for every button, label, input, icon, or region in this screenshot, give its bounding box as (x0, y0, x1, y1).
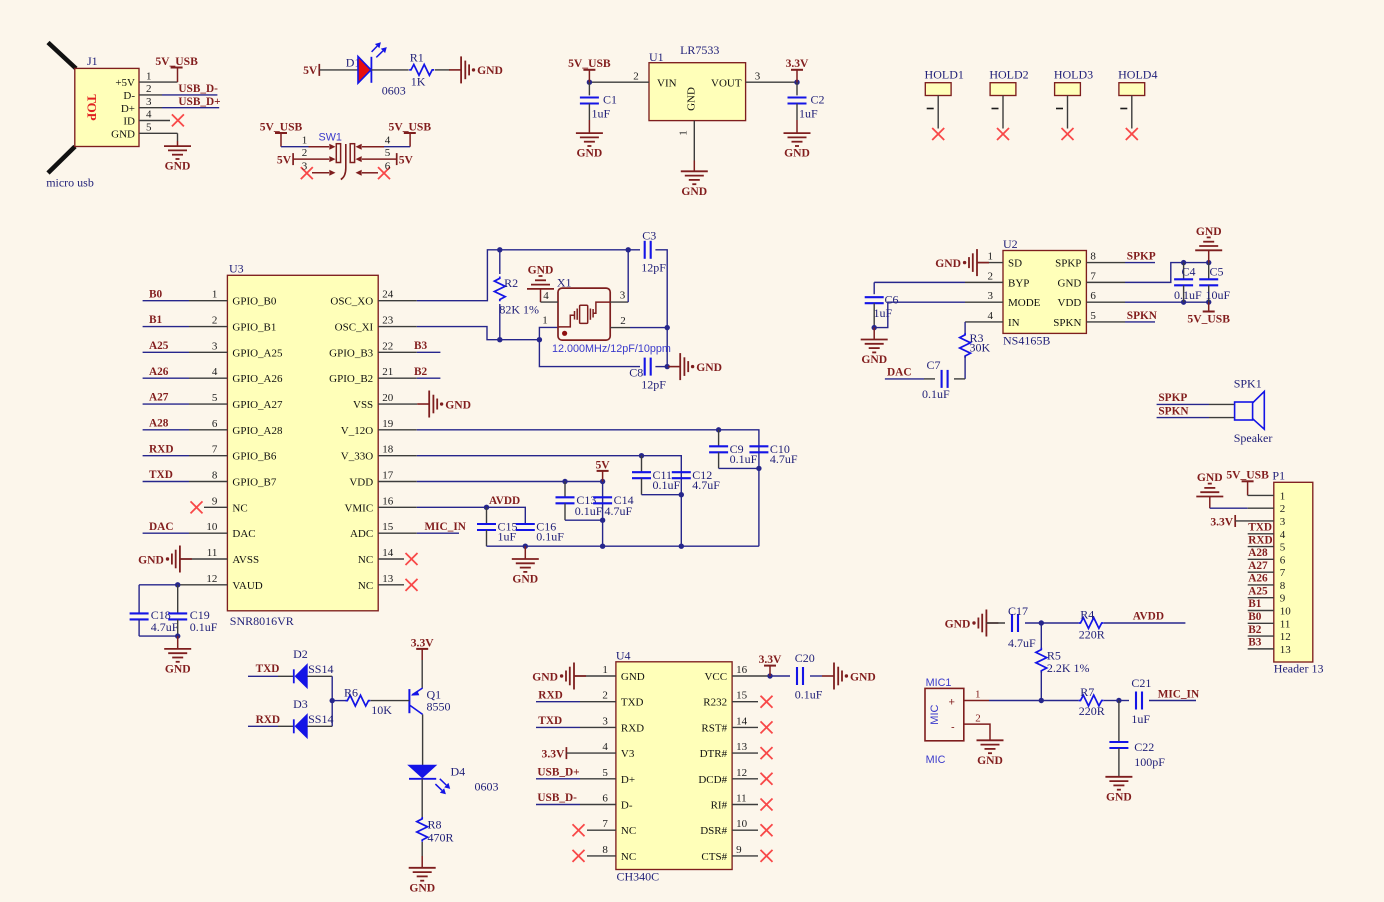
U3 pin 1 wire (143, 300, 228, 302)
svg-text:4.7uF: 4.7uF (605, 504, 633, 518)
svg-text:GND: GND (850, 670, 876, 683)
svg-text:220R: 220R (1079, 628, 1105, 642)
resistor R3 (960, 331, 991, 379)
no-connect X on SW1 pin 6 (378, 167, 390, 179)
svg-text:13: 13 (736, 741, 748, 753)
U4 pin 2 wire (536, 701, 616, 703)
ground GND right of R1 (449, 56, 503, 83)
P1 pin numbers (1280, 490, 1292, 655)
J1 pin 3 wire (139, 107, 219, 109)
SW1 pin 6 wire (356, 170, 379, 176)
svg-text:B1: B1 (1248, 598, 1262, 610)
net label RXD (149, 443, 173, 455)
svg-text:23: 23 (382, 315, 394, 327)
no-connect X on HOLD2 (997, 128, 1009, 140)
svg-text:GND: GND (409, 881, 435, 894)
svg-text:HOLD1: HOLD1 (925, 68, 964, 82)
svg-text:A26: A26 (149, 366, 169, 378)
capacitor C6 (865, 293, 899, 328)
svg-text:SPKP: SPKP (1158, 392, 1187, 404)
svg-text:R6: R6 (344, 686, 358, 700)
svg-text:5V_USB: 5V_USB (155, 55, 198, 68)
speaker SPK1 (1234, 377, 1262, 391)
capacitor C12 (672, 468, 721, 492)
net label TXD (149, 469, 173, 481)
svg-text:9: 9 (736, 844, 742, 856)
X1 pin 2 wire (610, 327, 667, 329)
svg-text:GPIO_B7: GPIO_B7 (232, 477, 277, 489)
svg-text:GND: GND (945, 617, 971, 630)
no-connect X on U4 pin 12 (761, 773, 773, 785)
svg-text:10: 10 (1280, 606, 1292, 618)
U3 pin 8 wire (143, 481, 228, 483)
J1 pin 1 wire (139, 68, 178, 83)
svg-text:3: 3 (602, 715, 608, 727)
svg-text:AVDD: AVDD (489, 495, 520, 507)
svg-text:1: 1 (678, 130, 690, 136)
svg-text:1: 1 (602, 664, 608, 676)
svg-text:DAC: DAC (232, 528, 255, 540)
SW1 pin 3 wire (312, 170, 336, 176)
svg-text:11: 11 (736, 793, 747, 805)
svg-text:VOUT: VOUT (711, 77, 742, 89)
svg-text:TXD: TXD (1248, 521, 1272, 533)
svg-text:NC: NC (621, 851, 636, 863)
capacitor C21 (1131, 676, 1151, 726)
svg-text:R2: R2 (504, 276, 518, 290)
svg-text:1: 1 (988, 251, 994, 263)
svg-text:GPIO_B2: GPIO_B2 (329, 373, 373, 385)
ground GND at P1 (1196, 471, 1223, 497)
U3 body (227, 275, 378, 611)
resistor R4 (1079, 608, 1105, 642)
svg-text:GND: GND (111, 128, 135, 140)
capacitor C15 (477, 507, 518, 546)
capacitor C10 (749, 442, 798, 466)
svg-text:ID: ID (123, 116, 135, 128)
svg-text:0603: 0603 (475, 780, 499, 794)
svg-text:8: 8 (1280, 580, 1286, 592)
power port 3.3V at U4 VCC (759, 653, 782, 676)
svg-text:3: 3 (212, 340, 218, 352)
J1 body (75, 68, 139, 146)
svg-text:12: 12 (736, 767, 747, 779)
svg-text:GND: GND (1196, 225, 1222, 238)
svg-text:5V: 5V (277, 153, 292, 166)
svg-text:RXD: RXD (149, 443, 173, 455)
svg-text:GPIO_A25: GPIO_A25 (232, 347, 283, 359)
U4 pin 13 wire (732, 752, 758, 754)
svg-text:12pF: 12pF (641, 378, 666, 392)
svg-text:4.7uF: 4.7uF (1008, 636, 1036, 650)
P1 pin 4 wire (1248, 533, 1274, 535)
wire to R4 (1041, 622, 1078, 624)
net label B1 (149, 314, 163, 326)
U1 pin 3 wire (746, 81, 797, 83)
svg-text:R7: R7 (1080, 685, 1094, 699)
P1 pin 3 wire (1235, 520, 1274, 522)
wire D3 to junction (307, 725, 332, 727)
svg-text:GND: GND (477, 64, 503, 77)
svg-text:3: 3 (755, 70, 761, 82)
svg-text:GND: GND (165, 662, 191, 675)
U3 pin 24 wire OSC_XO (378, 250, 640, 301)
U1 pin number 1 (678, 130, 690, 136)
svg-text:5V_USB: 5V_USB (1187, 313, 1230, 326)
svg-text:2: 2 (988, 270, 994, 282)
svg-text:1uF: 1uF (592, 107, 611, 121)
svg-text:5V: 5V (303, 64, 318, 77)
SW1 pin number 5 (385, 147, 391, 159)
X1 pin number 1 (542, 315, 548, 327)
U4 pin 5 wire (536, 778, 616, 780)
svg-text:0.1uF: 0.1uF (575, 504, 603, 518)
U4 left pin numbers (602, 664, 608, 856)
svg-text:5: 5 (1090, 310, 1096, 322)
svg-text:GND: GND (1058, 277, 1082, 289)
label Header 13 (1274, 662, 1324, 676)
P1 pin 8 wire (1248, 584, 1274, 586)
no-connect X on U4 pin 13 (761, 747, 773, 759)
wire SPKN to speaker (1157, 417, 1235, 419)
capacitor C8 (629, 358, 666, 392)
junction at C5 top (1206, 260, 1211, 265)
svg-text:13: 13 (382, 573, 394, 585)
junction at C6 bottom (872, 325, 877, 330)
svg-text:3.3V: 3.3V (786, 57, 809, 70)
svg-text:0.1uF: 0.1uF (653, 478, 681, 492)
HOLD1 body (925, 83, 951, 96)
capacitor C13 (556, 482, 603, 521)
svg-text:SW1: SW1 (319, 132, 342, 144)
ground GND under C22 (1105, 777, 1132, 804)
svg-text:DTR#: DTR# (700, 748, 728, 760)
svg-text:C21: C21 (1131, 676, 1151, 690)
svg-text:0.1uF: 0.1uF (1174, 288, 1202, 302)
svg-text:GPIO_A27: GPIO_A27 (232, 399, 283, 411)
U1 pin 2 wire (589, 81, 649, 83)
svg-text:C20: C20 (795, 651, 815, 665)
ground GND under U1 (681, 171, 708, 198)
svg-text:NC: NC (232, 502, 247, 514)
label NS4165B (1003, 334, 1050, 348)
svg-text:8: 8 (1090, 251, 1096, 263)
U3 pin 12 wire (139, 584, 227, 586)
svg-text:5V_USB: 5V_USB (568, 57, 611, 70)
svg-text:HOLD3: HOLD3 (1054, 68, 1093, 82)
U3 pin 7 wire (143, 455, 228, 457)
svg-text:3.3V: 3.3V (542, 747, 565, 760)
ground GND at J1 pin 5 (164, 146, 191, 173)
wire 5V to D1 (319, 69, 358, 71)
net label RXD at P1 (1248, 534, 1272, 546)
net label B0 (149, 288, 163, 300)
net label USB_D- at U4 (537, 792, 577, 804)
no-connect X on U4 pin 11 (761, 799, 773, 811)
U4 pin 12 wire (732, 778, 758, 780)
svg-text:2: 2 (302, 147, 308, 159)
junction at U4 VCC (767, 673, 772, 678)
svg-text:0.1uF: 0.1uF (730, 452, 758, 466)
junction at C13 top (562, 479, 567, 484)
svg-text:5V: 5V (596, 458, 611, 471)
U2 body (1003, 251, 1086, 334)
U4 pin 14 wire (732, 726, 758, 728)
svg-text:NS4165B: NS4165B (1003, 334, 1050, 348)
svg-text:B2: B2 (414, 366, 428, 378)
svg-text:R8: R8 (428, 818, 442, 832)
svg-text:12: 12 (206, 573, 217, 585)
svg-text:6: 6 (1280, 554, 1286, 566)
ground GND at U2 pin 1 (935, 249, 989, 276)
svg-text:+: + (949, 697, 955, 709)
ground GND under C2 (784, 120, 811, 160)
wire C11 C12 bottom rail (642, 494, 682, 496)
capacitor C20 (795, 651, 823, 702)
junction at U1 VIN (587, 80, 592, 85)
HOLD4 body (1119, 83, 1145, 96)
no-connect X on U4 pin 10 (761, 824, 773, 836)
svg-text:220R: 220R (1079, 704, 1105, 718)
U1 ground pin wire (693, 121, 695, 172)
svg-text:B3: B3 (1248, 637, 1262, 649)
svg-text:1: 1 (212, 289, 218, 301)
U4 pin 9 wire (732, 855, 758, 857)
net label A27 at P1 (1248, 560, 1268, 572)
svg-text:12: 12 (1280, 631, 1291, 643)
svg-text:VDD: VDD (1058, 297, 1082, 309)
svg-text:SPKP: SPKP (1055, 258, 1081, 270)
wire R8 to GND (421, 842, 423, 868)
U4 pin 15 wire (732, 701, 758, 703)
junction at C4 top (1181, 260, 1186, 265)
net label A25 (149, 340, 169, 352)
ground GND under C19 (164, 636, 191, 675)
svg-text:RXD: RXD (621, 722, 644, 734)
junction at U3 pin 12 (175, 582, 180, 587)
power port 5V at SW1 pin 2 (277, 153, 293, 166)
svg-text:GND: GND (1106, 790, 1132, 803)
ground GND at MIC1 pin 2 (977, 740, 1004, 767)
svg-text:MIC_IN: MIC_IN (1158, 688, 1200, 700)
svg-text:D+: D+ (621, 774, 635, 786)
LED D1 (358, 42, 387, 83)
svg-text:USB_D-: USB_D- (537, 792, 577, 804)
net label USB_D- (178, 83, 218, 95)
U3 pin 14 wire (378, 558, 404, 560)
svg-text:TXD: TXD (621, 697, 644, 709)
power port 5V_USB at U1 (568, 57, 611, 82)
svg-text:2: 2 (620, 315, 626, 327)
designator D1 (346, 56, 361, 70)
net label SPKN at U2 (1127, 310, 1158, 322)
svg-text:0.1uF: 0.1uF (922, 387, 950, 401)
no-connect X on U4 pin 9 (761, 850, 773, 862)
svg-text:USB_D+: USB_D+ (537, 767, 579, 779)
U2 pin 2 wire BYP (874, 282, 1003, 294)
svg-text:D3: D3 (293, 697, 308, 711)
wire to R7 (1041, 700, 1078, 702)
U4 pin 3 wire (536, 726, 616, 728)
svg-text:1: 1 (1280, 490, 1286, 502)
wire junction to R6 (332, 700, 346, 702)
svg-text:SPKN: SPKN (1053, 317, 1081, 329)
svg-text:14: 14 (382, 547, 394, 559)
power port 3.3V at U4 pin 4 (542, 747, 567, 760)
capacitor C17 (986, 604, 1041, 650)
svg-text:7: 7 (1090, 270, 1096, 282)
svg-text:GPIO_A28: GPIO_A28 (232, 425, 283, 437)
wire R7 to C21 (1104, 700, 1129, 702)
net label AVDD at VMIC (489, 495, 520, 507)
U3 pin 13 wire (378, 584, 404, 586)
svg-text:7: 7 (602, 818, 608, 830)
svg-text:470R: 470R (428, 831, 454, 845)
LED D4 (409, 765, 466, 795)
svg-text:C5: C5 (1210, 265, 1224, 279)
svg-text:VAUD: VAUD (232, 580, 262, 592)
svg-text:NC: NC (621, 825, 636, 837)
svg-text:DAC: DAC (149, 521, 173, 533)
svg-text:1uF: 1uF (498, 529, 517, 543)
svg-text:SPKN: SPKN (1127, 310, 1158, 322)
svg-text:16: 16 (382, 495, 394, 507)
U3 left pin names (232, 296, 283, 592)
junction at C14 bottom (600, 518, 605, 523)
svg-text:GND: GND (138, 553, 164, 566)
net label RXD at D3 (256, 714, 280, 726)
svg-text:SD: SD (1008, 258, 1022, 270)
svg-text:13: 13 (1280, 644, 1292, 656)
ground GND at U4 pin 1 (532, 663, 586, 690)
svg-text:GPIO_B6: GPIO_B6 (232, 451, 277, 463)
svg-text:SS14: SS14 (308, 662, 333, 676)
svg-text:DCD#: DCD# (698, 774, 727, 786)
svg-text:2: 2 (633, 70, 639, 82)
svg-text:14: 14 (736, 715, 748, 727)
svg-text:8: 8 (602, 844, 608, 856)
svg-text:20: 20 (382, 392, 394, 404)
svg-text:GND: GND (532, 670, 558, 683)
junction at C11 top (639, 453, 644, 458)
junction diodes to R6 (330, 698, 335, 703)
diode D3 SS14 (293, 697, 333, 738)
wire D1 to R1 (371, 69, 408, 71)
svg-text:10: 10 (736, 818, 748, 830)
svg-text:9: 9 (1280, 593, 1286, 605)
svg-text:VSS: VSS (353, 399, 373, 411)
capacitor C1 (580, 82, 617, 120)
label micro usb (46, 176, 94, 190)
net label TXD at P1 (1248, 521, 1272, 533)
svg-text:VDD: VDD (349, 477, 373, 489)
capacitor C16 (516, 519, 565, 543)
svg-text:AVDD: AVDD (1133, 611, 1164, 623)
net label DAC at C7 (887, 367, 911, 379)
svg-text:4: 4 (602, 741, 608, 753)
svg-text:GND: GND (528, 263, 554, 276)
net label A26 at P1 (1248, 573, 1268, 585)
X1 pin 4 wire (541, 301, 559, 303)
svg-text:GPIO_B0: GPIO_B0 (232, 296, 277, 308)
svg-text:24: 24 (382, 289, 394, 301)
junction at U1 VOUT (794, 80, 799, 85)
MIC1 pin 2 wire (964, 724, 990, 740)
junction at C8 right (665, 364, 670, 369)
svg-text:4: 4 (1280, 529, 1286, 541)
no-connect X on J1 pin 4 (172, 114, 184, 126)
svg-text:6: 6 (1090, 290, 1096, 302)
svg-text:3: 3 (146, 96, 152, 108)
svg-text:SS14: SS14 (308, 712, 333, 726)
svg-text:2: 2 (1280, 503, 1286, 515)
HOLD1 pin wire (927, 96, 939, 129)
diode D2 SS14 (293, 647, 333, 688)
P1 pin 5 wire (1248, 546, 1274, 548)
junction at X1 pin3 top (626, 247, 631, 252)
X1 pin number 4 (543, 290, 549, 302)
J1 shell pin top-left (48, 43, 76, 69)
X1 pin number 3 (620, 290, 626, 302)
svg-text:MODE: MODE (1008, 297, 1041, 309)
net label USB_D+ at U4 (537, 767, 579, 779)
J1 pin names (111, 77, 135, 140)
svg-text:GND: GND (935, 257, 961, 270)
test pad HOLD4 (1118, 68, 1157, 82)
label Speaker (1234, 431, 1273, 445)
U3 pin 19 wire V_12O (378, 430, 759, 546)
svg-text:RI#: RI# (711, 800, 728, 812)
svg-text:RXD: RXD (538, 689, 562, 701)
svg-text:V_33O: V_33O (341, 451, 373, 463)
svg-text:VIN: VIN (657, 77, 677, 89)
svg-text:SPKP: SPKP (1127, 251, 1156, 263)
svg-text:6: 6 (602, 793, 608, 805)
wire C18 to C19 bottom (139, 635, 178, 637)
junction at C12 bottom (679, 492, 684, 497)
svg-text:A25: A25 (1248, 585, 1268, 597)
no-connect X on SW1 pin 3 (301, 167, 313, 179)
svg-text:16: 16 (736, 664, 748, 676)
SW1 pin number 3 (302, 161, 308, 173)
svg-text:TOP: TOP (85, 94, 100, 121)
svg-text:5V_USB: 5V_USB (389, 120, 432, 133)
svg-text:TXD: TXD (538, 715, 562, 727)
microphone MIC1 (926, 677, 952, 689)
svg-text:MIC: MIC (926, 754, 946, 766)
svg-text:1: 1 (542, 315, 548, 327)
svg-text:GND: GND (621, 671, 645, 683)
svg-text:18: 18 (382, 444, 394, 456)
svg-text:BYP: BYP (1008, 277, 1029, 289)
resistor R6 (344, 686, 392, 718)
U3 pin 2 wire (143, 326, 228, 328)
net label SPKN at speaker (1158, 405, 1189, 417)
svg-text:Header 13: Header 13 (1274, 662, 1324, 676)
ground GND above X1 pin 4 (527, 263, 554, 302)
net label DAC (149, 521, 173, 533)
P1 pin 9 wire (1248, 597, 1274, 599)
svg-text:C17: C17 (1008, 604, 1028, 618)
svg-text:MIC: MIC (929, 704, 941, 724)
svg-text:AVSS: AVSS (232, 554, 259, 566)
ground GND under R8 (409, 868, 436, 895)
net label TXD at U4 (538, 715, 562, 727)
svg-text:3: 3 (302, 161, 308, 173)
wire R1 to GND (435, 69, 450, 71)
svg-text:RXD: RXD (256, 714, 280, 726)
U4 right pin numbers (736, 664, 748, 856)
